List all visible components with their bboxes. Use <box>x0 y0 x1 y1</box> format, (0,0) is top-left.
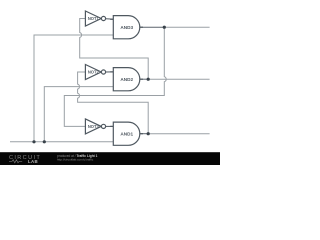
svg-text:AND3: AND3 <box>120 25 133 30</box>
svg-text:NOT1: NOT1 <box>88 16 100 21</box>
svg-text:AND1: AND1 <box>120 131 133 136</box>
svg-text:AND2: AND2 <box>120 77 133 82</box>
svg-text:NOT3: NOT3 <box>88 124 100 129</box>
svg-text:LAB: LAB <box>28 159 38 164</box>
svg-text:http://circuitlab.com/c/traffi: http://circuitlab.com/c/traffic <box>57 158 94 162</box>
svg-text:NOT2: NOT2 <box>88 69 100 74</box>
